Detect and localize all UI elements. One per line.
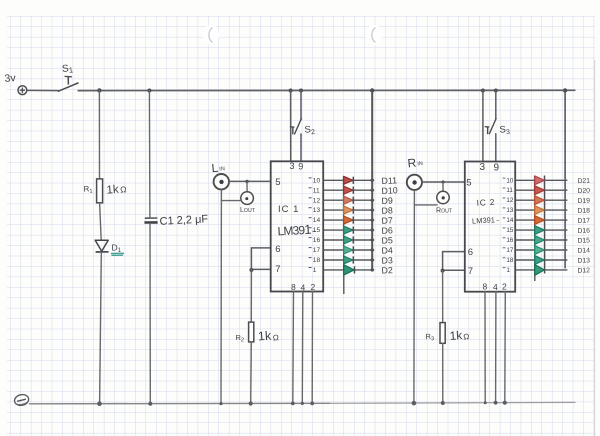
svg-text:D9: D9 — [381, 195, 393, 205]
LED D9 — [344, 196, 354, 204]
wire LED D6 to anode rail — [353, 229, 374, 231]
svg-text:S1: S1 — [62, 63, 74, 76]
IC1 pin 11 number — [309, 187, 320, 194]
wire IC1 pin to LED D10 — [323, 189, 343, 191]
wire S2 upper segment (pin9) — [300, 91, 302, 120]
node R_out stem on pin5 wire — [441, 180, 444, 183]
microphone jack L_in — [214, 174, 229, 189]
node top rail / LED rail 2 — [563, 88, 567, 92]
svg-text:18: 18 — [506, 257, 514, 264]
svg-text:2: 2 — [311, 282, 316, 292]
LED D19 — [535, 196, 545, 205]
wire bottom ground rail (right, fainter) — [330, 401, 575, 404]
IC1 pin 12 number — [309, 197, 321, 204]
svg-text:5: 5 — [275, 177, 280, 188]
wire junction down to R3 — [442, 271, 444, 323]
wire D1 to bottom rail — [100, 252, 102, 403]
node bottom rail / IC1 pin2 — [310, 402, 314, 406]
svg-text:16: 16 — [313, 237, 321, 244]
wire LED D13 to anode rail — [545, 259, 568, 261]
IC1 pin 14 number — [309, 217, 321, 224]
wire S2 lower segment to IC1 pin9 — [300, 134, 302, 161]
wire IC1 pin to LED D3 — [323, 259, 343, 261]
wire LED D3 to anode rail — [353, 259, 374, 261]
node bottom rail / L_in — [219, 402, 222, 405]
LED D7 — [344, 216, 354, 224]
LED D15 — [535, 236, 545, 245]
svg-text:D18: D18 — [577, 207, 590, 214]
LED D10 — [344, 186, 354, 194]
svg-text:4: 4 — [493, 282, 498, 292]
label D1 — [111, 243, 124, 256]
switch S3 — [485, 119, 496, 135]
node top rail / LED rail 1 — [370, 88, 374, 92]
wire LED D17 to anode rail — [545, 219, 568, 221]
wire IC1 pin3 to top rail — [290, 91, 292, 162]
svg-text:6: 6 — [468, 247, 473, 258]
svg-text:14: 14 — [313, 217, 321, 224]
svg-text:D19: D19 — [577, 198, 590, 205]
svg-text:18: 18 — [313, 257, 321, 264]
IC2 pin 1 number — [503, 267, 511, 274]
svg-text:15: 15 — [506, 227, 514, 234]
wire L_in lower link to L_out — [221, 200, 241, 202]
svg-text:5: 5 — [466, 177, 471, 188]
wire LED D8 to anode rail — [353, 209, 374, 211]
IC2 pin 16 number — [503, 237, 514, 244]
wire IC1 pin to LED D5 — [323, 239, 343, 241]
LED D4 — [344, 246, 354, 254]
wire IC2 pin to LED D16 — [515, 229, 534, 231]
svg-text:D10: D10 — [381, 185, 398, 196]
svg-text:3: 3 — [290, 161, 295, 171]
wire IC2 pin3 to top rail — [482, 91, 484, 162]
LED D12 — [535, 265, 545, 276]
IC1 pin 18 number — [309, 257, 321, 264]
wire LED D15 to anode rail — [545, 239, 568, 241]
node bottom rail / IC2 pin4 — [494, 401, 498, 405]
svg-text:11: 11 — [313, 187, 320, 194]
switch S1 — [58, 76, 78, 91]
wire IC2 pin to LED D12 — [515, 269, 534, 271]
wire LED D4 to anode rail — [353, 249, 374, 251]
svg-text:D21: D21 — [577, 178, 590, 185]
node bottom rail / R3 — [441, 401, 445, 405]
node rail 1 row D3 — [371, 258, 374, 261]
wire IC1 pin6 left — [251, 247, 270, 249]
resistor R1 — [97, 179, 103, 203]
battery positive terminal 3V — [18, 86, 27, 95]
node bottom rail / IC1 pin8 — [291, 402, 295, 406]
svg-text:IC 2: IC 2 — [476, 197, 495, 208]
wire pin6 down to pin7 node (IC2) — [442, 252, 444, 271]
microphone jack R_in — [407, 175, 422, 190]
node pins6-7 junction (IC2) — [441, 269, 445, 273]
wire pin6 down to pin7 node — [250, 248, 252, 270]
stray erased pencil mark left — [203, 25, 219, 45]
LED D11 — [344, 176, 354, 184]
wire LED D5 to anode rail — [353, 239, 374, 241]
wire S3 upper segment (pin9) — [495, 91, 497, 120]
LED D21 — [535, 176, 545, 185]
svg-text:12: 12 — [313, 197, 321, 204]
node rail 1 row D2 — [371, 268, 374, 271]
svg-text:16: 16 — [506, 237, 514, 244]
wire LED anode rail 1 (from top rail) — [371, 91, 373, 271]
wire R_in to bottom rail — [413, 190, 416, 403]
svg-text:7: 7 — [275, 264, 280, 275]
LED D3 — [344, 256, 354, 264]
node top rail / IC2 pin3 branch — [481, 89, 485, 93]
op-amp / LED driver IC1 LM391 — [271, 161, 324, 291]
svg-text:17: 17 — [506, 247, 514, 254]
wire IC2 pin to LED D17 — [515, 219, 534, 221]
wire IC2 pin to LED D13 — [515, 259, 534, 261]
IC1 pin 10 number — [309, 177, 321, 184]
wire LED anode bus line (IC2 column, left) — [534, 176, 536, 281]
svg-text:8: 8 — [483, 282, 488, 292]
node top rail / C1 branch — [147, 89, 151, 93]
wire R_in lower link to R_out — [414, 204, 437, 206]
svg-text:LOUT: LOUT — [240, 207, 256, 214]
IC2 pin 13 number — [503, 207, 514, 214]
wire IC2 pin 8 to bottom rail — [484, 292, 486, 403]
IC2 pin 14 number — [503, 217, 514, 224]
IC1 pin 13 number — [309, 207, 321, 214]
svg-text:D3: D3 — [381, 255, 393, 265]
wire LED D19 to anode rail — [545, 199, 568, 201]
wire battery+ to switch S1 — [27, 89, 58, 91]
svg-text:D16: D16 — [577, 227, 590, 234]
svg-text:15: 15 — [313, 227, 321, 234]
wire IC1 pin to LED D11 — [323, 179, 343, 181]
svg-text:3: 3 — [480, 162, 486, 173]
svg-text:13: 13 — [506, 207, 514, 214]
wire top rail to C1 — [148, 91, 151, 218]
wire LED D21 to anode rail — [545, 179, 568, 181]
node bottom rail / R_in — [412, 401, 417, 406]
svg-text:D8: D8 — [381, 205, 393, 215]
svg-text:17: 17 — [313, 247, 321, 254]
wire C1 to bottom rail — [149, 224, 151, 404]
wire junction down to R2 — [250, 270, 252, 323]
svg-text:D7: D7 — [381, 215, 393, 225]
wire LED D18 to anode rail — [545, 209, 568, 211]
svg-text:8: 8 — [291, 282, 296, 292]
node pins6-7 junction — [249, 268, 253, 272]
LED D8 — [344, 206, 354, 214]
IC2 pin 15 number — [503, 227, 514, 234]
svg-text:D15: D15 — [577, 237, 590, 244]
node rail 1 row D6 — [371, 228, 374, 231]
svg-text:1: 1 — [313, 267, 317, 274]
svg-text:D17: D17 — [577, 217, 590, 224]
svg-text:12: 12 — [506, 197, 514, 204]
wire LED D12 to anode rail — [545, 269, 568, 271]
IC2 pin 11 number — [503, 187, 514, 194]
wire R3 to bottom rail — [442, 343, 444, 403]
wire IC1 pin to LED D8 — [323, 209, 343, 211]
LED D20 — [535, 186, 545, 195]
svg-text:D13: D13 — [577, 257, 590, 264]
wire IC2 pin to LED D20 — [515, 189, 534, 191]
IC2 pin 10 number — [503, 177, 514, 184]
wire IC1 pin to LED D9 — [323, 199, 343, 201]
wire top +3V power rail — [78, 89, 575, 91]
wire IC2 pin 2 to bottom rail — [504, 292, 507, 403]
battery negative terminal — [14, 393, 30, 406]
svg-text:6: 6 — [275, 244, 280, 255]
node rail 1 row D5 — [371, 238, 374, 241]
node rail 1 row D4 — [371, 248, 374, 251]
svg-text:1: 1 — [506, 267, 510, 274]
switch S2 — [290, 119, 301, 135]
svg-text:D4: D4 — [381, 245, 393, 255]
svg-text:D5: D5 — [381, 235, 393, 245]
node bottom rail / C1 — [148, 402, 152, 406]
svg-text:D6: D6 — [381, 225, 393, 235]
node rail 1 row D9 — [371, 199, 374, 202]
node top rail / IC1 pin3 branch — [289, 89, 293, 93]
svg-text:D20: D20 — [577, 188, 590, 195]
node top rail / S3 branch — [494, 89, 498, 93]
IC1 pin 15 number — [309, 227, 321, 234]
wire LED D14 to anode rail — [545, 249, 568, 251]
LED D5 — [344, 236, 354, 244]
IC2 pin 17 number — [503, 247, 514, 254]
wire LED D9 to anode rail — [353, 199, 374, 201]
capacitor C1 — [144, 218, 157, 223]
svg-text:10: 10 — [506, 177, 514, 184]
resistor R2 — [249, 322, 254, 342]
stray erased pencil mark right — [366, 25, 382, 45]
wire top rail to R1 — [98, 91, 100, 179]
wire IC1 pin to LED D6 — [323, 229, 343, 231]
svg-text:D12: D12 — [577, 267, 590, 274]
wire LED D7 to anode rail — [353, 219, 374, 221]
node rail 1 row D7 — [371, 218, 374, 221]
svg-text:10: 10 — [313, 177, 321, 184]
LED D17 — [535, 216, 545, 225]
wire R1 to D1 — [100, 203, 102, 241]
wire bottom ground rail (left) — [30, 402, 331, 405]
LED D18 — [535, 206, 545, 215]
wire IC1 pin7 left — [251, 268, 270, 270]
wire IC2 pin to LED D15 — [515, 239, 534, 241]
IC2 pin 18 number — [503, 257, 514, 264]
wire IC2 pin to LED D21 — [515, 179, 534, 181]
wire IC1 pin 4 to bottom rail — [301, 292, 304, 404]
node top rail / R1 branch — [97, 88, 101, 92]
svg-text:D14: D14 — [577, 247, 590, 254]
wire L_in to IC1 pin5 — [229, 180, 271, 182]
wire IC1 pin 2 to bottom rail — [311, 292, 313, 404]
wire L_in to bottom rail — [220, 189, 222, 403]
IC1 pin 17 number — [309, 247, 321, 254]
wire LED anode rail 2 (from top rail) — [564, 91, 566, 269]
svg-text:D2: D2 — [381, 265, 393, 275]
wire IC2 pin7 left — [443, 269, 465, 271]
svg-text:LM391~: LM391~ — [277, 221, 316, 238]
wire IC1 pin to LED D4 — [323, 249, 343, 251]
wire LED D10 to anode rail — [353, 189, 374, 191]
node top rail / S2 branch — [299, 89, 303, 93]
svg-text:2: 2 — [502, 282, 507, 292]
wire IC2 pin to LED D18 — [515, 209, 534, 211]
IC1 pin 16 number — [309, 237, 321, 244]
wire IC2 pin 4 to bottom rail — [495, 292, 497, 403]
wire L_out stem — [246, 182, 248, 192]
LED D14 — [535, 246, 545, 255]
wire IC2 pin6 left — [443, 251, 465, 253]
wire LED D16 to anode rail — [545, 229, 568, 231]
LED D2 — [344, 265, 355, 275]
svg-text:7: 7 — [468, 266, 473, 277]
microphone jack R_out — [437, 191, 449, 203]
wire IC1 pin to LED D7 — [323, 219, 343, 221]
node bottom rail / IC2 pin8 — [484, 401, 487, 404]
microphone jack L_out — [241, 192, 254, 205]
wire LED D2 to anode rail — [355, 269, 375, 271]
svg-text:3v: 3v — [4, 72, 17, 85]
op-amp / LED driver IC2 LM391 — [465, 162, 515, 292]
wire IC2 pin to LED D14 — [515, 249, 534, 251]
svg-text:9: 9 — [298, 161, 303, 171]
LED D6 — [344, 226, 354, 234]
wire R_in to IC2 pin5 — [422, 181, 465, 183]
IC2 pin 12 number — [503, 197, 514, 204]
svg-text:ROUT: ROUT — [436, 208, 453, 215]
node bottom rail / D1 — [97, 401, 102, 406]
svg-text:11: 11 — [506, 187, 513, 194]
node bottom rail / R2 — [249, 401, 253, 405]
svg-text:IC 1: IC 1 — [278, 204, 299, 215]
svg-text:13: 13 — [313, 207, 321, 214]
wire LED D11 to anode rail — [353, 179, 374, 181]
svg-text:D11: D11 — [381, 175, 397, 186]
IC1 pin 1 number — [309, 267, 317, 274]
wire IC1 pin 8 to bottom rail — [292, 292, 295, 404]
svg-text:4: 4 — [301, 282, 306, 292]
wire IC2 pin to LED D19 — [515, 199, 534, 201]
wire LED D20 to anode rail — [545, 189, 568, 191]
resistor R3 — [440, 323, 445, 344]
node rail 1 row D10 — [371, 189, 374, 192]
node rail 1 row D11 — [371, 179, 374, 182]
node L_out stem on pin5 wire — [245, 180, 248, 183]
wire IC1 pin to LED D2 — [323, 269, 343, 271]
LED D13 — [535, 256, 545, 265]
node rail 1 row D8 — [371, 208, 374, 211]
wire R_out stem — [442, 182, 444, 191]
LED D16 — [535, 226, 545, 235]
svg-text:9: 9 — [494, 162, 500, 173]
svg-text:14: 14 — [506, 217, 514, 224]
diode D1 — [95, 240, 108, 252]
svg-text:C1 2,2 μF: C1 2,2 μF — [159, 213, 208, 228]
wire R2 to bottom rail — [250, 342, 253, 404]
node bottom rail / IC1 pin4 — [301, 402, 304, 405]
wire S3 lower segment to IC2 pin9 — [495, 134, 497, 162]
wire LED cathode bus line (IC2 column, right) — [544, 176, 546, 274]
node bottom rail / IC2 pin2 — [503, 401, 507, 405]
wire LED anode bus line (IC1 column) — [343, 176, 345, 294]
